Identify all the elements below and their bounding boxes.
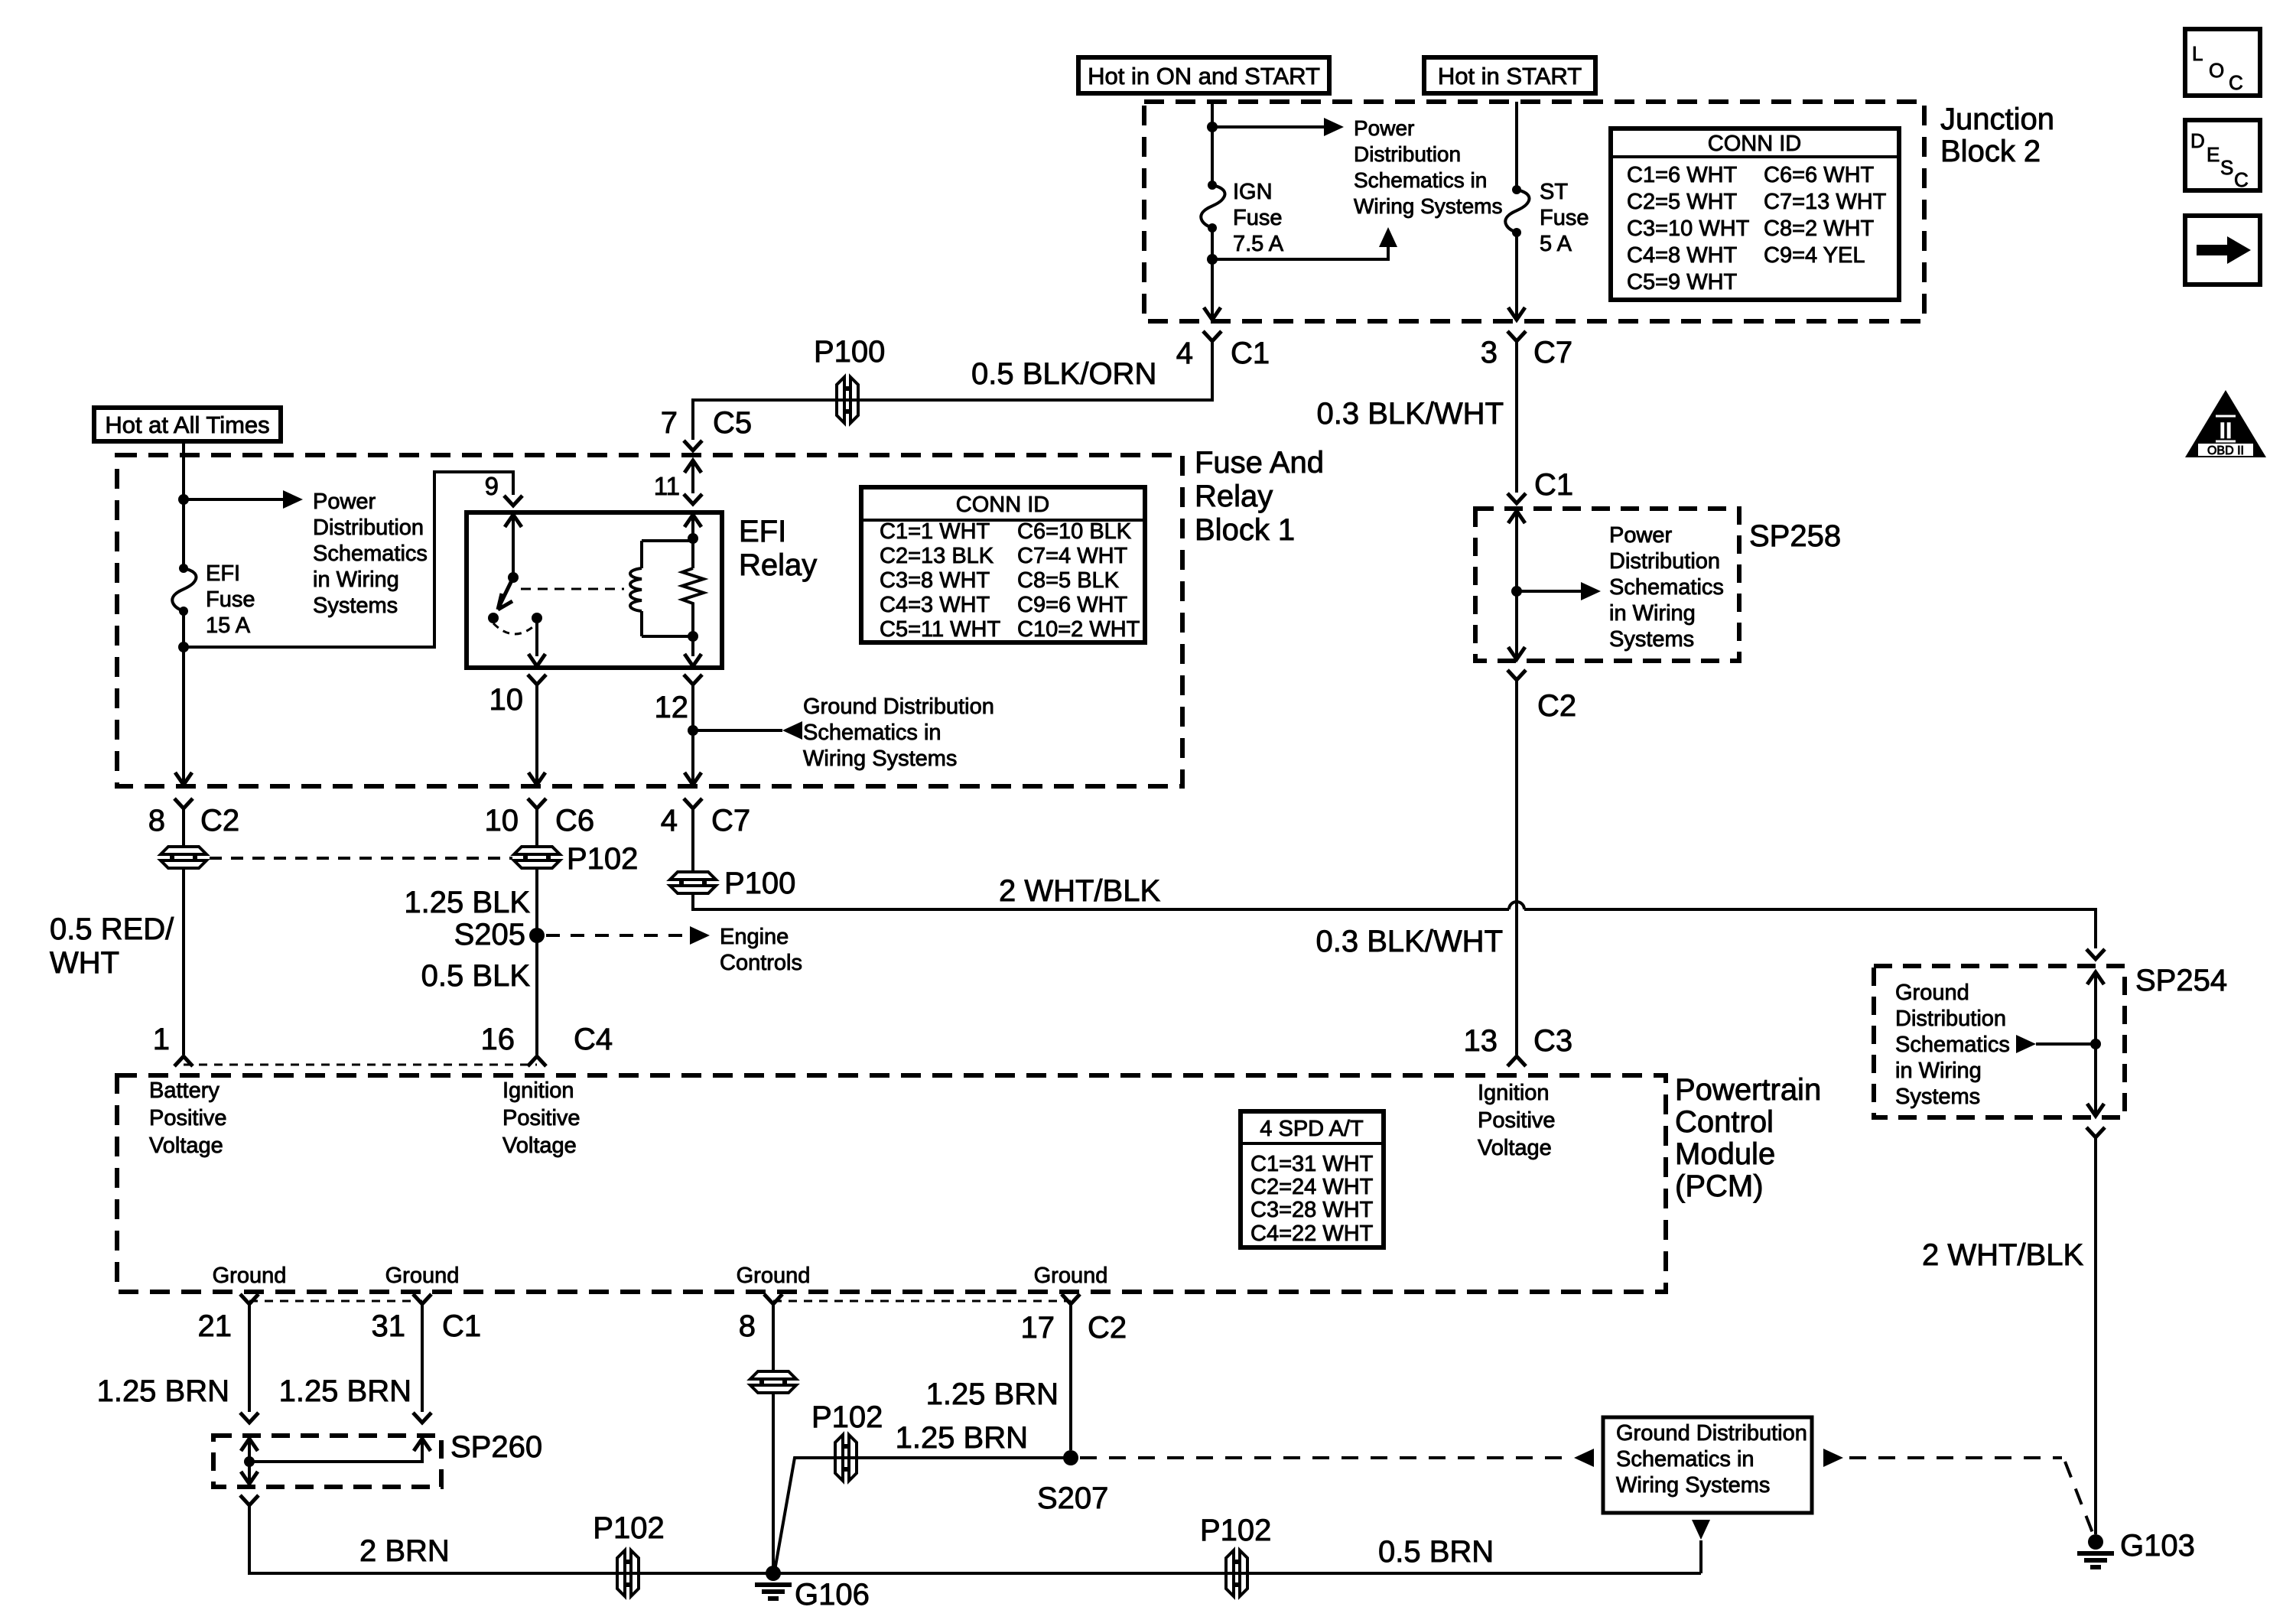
relay EFI: case <box>467 512 722 668</box>
text: Ground Distribution Schematics in Wiring Systems (SP254) <box>1895 981 2010 1109</box>
svg-text:Distribution: Distribution <box>313 516 424 540</box>
svg-text:Fuse: Fuse <box>1540 206 1589 230</box>
label EFI Fuse 15 A <box>206 561 255 638</box>
svg-text:1.25 BLK: 1.25 BLK <box>404 886 530 919</box>
svg-text:P102: P102 <box>567 842 638 876</box>
svg-text:Power: Power <box>313 490 376 514</box>
inline connector P102 (0.5 BRN) <box>1226 1550 1247 1596</box>
arrow (left) at ground distribution box <box>1574 1449 1594 1467</box>
icon: LOC box <box>2185 29 2260 96</box>
pin 13 C3 terminal into PCM <box>1507 1056 1526 1066</box>
svg-text:0.5 RED/: 0.5 RED/ <box>50 912 174 946</box>
svg-text:Hot in ON and START: Hot in ON and START <box>1088 63 1320 89</box>
svg-text:C7=4 WHT: C7=4 WHT <box>1017 544 1128 568</box>
pin 4 C1 female terminal <box>1203 331 1221 341</box>
pin 9 male terminal <box>504 496 522 506</box>
svg-text:2 BRN: 2 BRN <box>359 1534 450 1568</box>
arrow inside SP258 bottom <box>1508 647 1525 659</box>
inline connector P100 (on 0.5 BLK/ORN) <box>837 377 858 423</box>
svg-text:0.3 BLK/WHT: 0.3 BLK/WHT <box>1315 925 1503 958</box>
splice S205 <box>529 928 545 943</box>
splice pack SP254 dashed boundary <box>1874 966 2125 1117</box>
header box: Hot in START <box>1424 57 1595 93</box>
wire: 1.25 BRN pin 21 to SP260 <box>248 1304 251 1412</box>
svg-text:OBD II: OBD II <box>2207 444 2244 457</box>
inline connector P102 (1.25 BRN) <box>835 1435 857 1481</box>
svg-text:P100: P100 <box>814 335 885 369</box>
ground distribution schematics box <box>1603 1417 1812 1513</box>
svg-text:7: 7 <box>661 406 678 440</box>
relay coil <box>630 568 642 611</box>
hop over 0.3 BLK/WHT wire <box>1509 902 1524 909</box>
node: SP258 splice dot <box>1511 586 1522 597</box>
svg-text:in Wiring: in Wiring <box>1895 1059 1982 1083</box>
svg-text:C5: C5 <box>713 406 752 440</box>
svg-text:Powertrain: Powertrain <box>1675 1073 1821 1107</box>
svg-text:Voltage: Voltage <box>502 1134 577 1158</box>
arrow to power distribution reference <box>283 490 303 509</box>
svg-text:Relay: Relay <box>1195 480 1273 513</box>
node: branch dot below EFI fuse <box>178 642 189 652</box>
svg-text:Hot in START: Hot in START <box>1438 63 1582 89</box>
svg-text:C10=2 WHT: C10=2 WHT <box>1017 617 1140 642</box>
pin 10 C6 female terminal <box>528 798 546 808</box>
svg-text:Ground: Ground <box>1034 1264 1108 1288</box>
svg-text:31: 31 <box>372 1309 406 1343</box>
svg-text:in Wiring: in Wiring <box>313 568 399 592</box>
svg-text:S: S <box>2220 156 2233 179</box>
svg-text:Fuse And: Fuse And <box>1195 446 1324 480</box>
pin 8 female terminal <box>764 1294 782 1304</box>
header box: Hot in ON and START <box>1078 57 1329 93</box>
arrow inside SP260 bottom <box>241 1472 258 1484</box>
fuse EFI 15 A <box>172 564 196 616</box>
inline connector P100 (2 WHT/BLK) <box>670 872 716 893</box>
wire: 1.25 BLK / 0.5 BLK down to PCM pin 16 <box>535 808 538 1055</box>
svg-text:C: C <box>2234 168 2249 191</box>
wire: junction block 2 IGN feed <box>1211 102 1214 320</box>
svg-text:II: II <box>2220 418 2233 444</box>
svg-text:Block 2: Block 2 <box>1940 135 2041 168</box>
svg-text:IGN: IGN <box>1233 180 1273 204</box>
svg-text:15 A: 15 A <box>206 613 251 638</box>
svg-text:C7: C7 <box>711 804 750 838</box>
arrow inside SP254 bottom <box>2087 1104 2104 1116</box>
svg-text:Voltage: Voltage <box>1478 1136 1552 1160</box>
dashed reference from S205 to Engine Controls <box>546 934 685 937</box>
svg-text:Junction: Junction <box>1940 102 2054 136</box>
svg-text:10: 10 <box>489 683 524 717</box>
wire: 2 WHT/BLK across to SP254 with hop over ST wire <box>693 893 2096 948</box>
svg-text:Ground: Ground <box>213 1264 287 1288</box>
pin 10 female terminal <box>528 675 546 685</box>
svg-text:C2=24 WHT: C2=24 WHT <box>1250 1175 1374 1199</box>
dashed mechanical link to coil <box>521 588 624 590</box>
wire: coil branch column <box>691 515 694 636</box>
wire: junction block 2 ST feed <box>1515 102 1518 320</box>
wire: 0.3 BLK/WHT down to SP258 <box>1515 341 1518 493</box>
SP260 male terminal right <box>413 1413 431 1423</box>
label Powertrain Control Module (PCM) <box>1675 1073 1821 1203</box>
svg-text:16: 16 <box>481 1023 515 1056</box>
svg-text:C9=4 YEL: C9=4 YEL <box>1764 243 1865 268</box>
svg-text:C5=11 WHT: C5=11 WHT <box>880 617 1000 642</box>
arrow (right) at ground distribution box <box>1823 1449 1843 1467</box>
svg-text:C5=9 WHT: C5=9 WHT <box>1627 270 1738 294</box>
svg-text:C4=3 WHT: C4=3 WHT <box>880 593 990 617</box>
wire: pin 4 C7 to P100 <box>691 808 694 873</box>
svg-text:C1=6 WHT: C1=6 WHT <box>1627 163 1738 187</box>
switch arm with arrowhead <box>498 577 513 610</box>
node: SP254 splice dot <box>2090 1039 2101 1049</box>
junction block 2 dashed boundary <box>1144 102 1924 321</box>
SP258 male terminal <box>1507 493 1526 503</box>
svg-text:Controls: Controls <box>720 951 802 975</box>
svg-text:0.3 BLK/WHT: 0.3 BLK/WHT <box>1316 397 1504 431</box>
pin 1 terminal into PCM <box>174 1056 193 1066</box>
svg-text:Ignition: Ignition <box>502 1078 574 1103</box>
pin 16 C4 terminal into PCM <box>528 1056 546 1066</box>
splice S207 <box>1063 1450 1078 1465</box>
pin 31 female terminal <box>413 1294 431 1304</box>
svg-text:C6=10 BLK: C6=10 BLK <box>1017 519 1132 544</box>
svg-text:CONN ID: CONN ID <box>1708 132 1801 156</box>
wire: 0.5 RED/WHT down to PCM pin 1 <box>182 808 185 1055</box>
svg-text:C7: C7 <box>1533 336 1572 369</box>
dashed diagonal to G103 <box>2065 1462 2093 1533</box>
svg-text:P100: P100 <box>724 867 795 900</box>
svg-text:4 SPD A/T: 4 SPD A/T <box>1260 1117 1364 1141</box>
wire: branch to power distribution reference (JB2) <box>1212 125 1325 128</box>
svg-text:8: 8 <box>148 804 165 838</box>
svg-text:E: E <box>2207 143 2220 166</box>
wire: coil to relay pin 12 <box>691 636 694 656</box>
svg-text:1: 1 <box>153 1023 170 1056</box>
pin 8 C2 female terminal <box>174 798 193 808</box>
label EFI Relay <box>739 515 817 582</box>
svg-text:2 WHT/BLK: 2 WHT/BLK <box>999 874 1160 908</box>
svg-text:Block 1: Block 1 <box>1195 513 1295 547</box>
icon: DESC box <box>2185 120 2260 191</box>
svg-text:CONN ID: CONN ID <box>956 493 1049 517</box>
svg-text:P102: P102 <box>593 1511 664 1545</box>
SP260 male terminal left <box>240 1413 259 1423</box>
fuse IGN 7.5 A <box>1201 181 1224 233</box>
svg-text:Schematics: Schematics <box>1609 575 1724 600</box>
svg-text:1.25 BRN: 1.25 BRN <box>279 1374 411 1408</box>
svg-text:EFI: EFI <box>739 515 786 548</box>
svg-text:Wiring Systems: Wiring Systems <box>1616 1473 1770 1498</box>
svg-text:C4: C4 <box>574 1023 613 1056</box>
wire: contact to relay pin 10 <box>535 618 538 656</box>
svg-text:Positive: Positive <box>1478 1108 1556 1133</box>
svg-text:Ignition: Ignition <box>1478 1081 1550 1105</box>
inline connector (pin 8 lead) <box>750 1371 796 1393</box>
svg-text:11: 11 <box>654 472 680 500</box>
relay suppression resistor <box>682 568 704 608</box>
svg-text:C3: C3 <box>1533 1024 1572 1058</box>
text: Power Distribution Schematics in Wiring Systems (JB2) <box>1354 116 1502 218</box>
svg-text:Distribution: Distribution <box>1354 142 1461 166</box>
dashed connector strip pins 8-17 <box>773 1300 1071 1303</box>
svg-text:Schematics: Schematics <box>313 542 428 566</box>
svg-text:Module: Module <box>1675 1137 1775 1171</box>
coil stubs <box>642 541 693 636</box>
dashed throw arc between contacts <box>493 623 537 634</box>
svg-text:7.5 A: 7.5 A <box>1233 232 1284 256</box>
fuse and relay block 1 dashed boundary <box>117 455 1182 786</box>
svg-text:C9=6 WHT: C9=6 WHT <box>1017 593 1128 617</box>
wire: 2 BRN from SP260 to G106 and on to ground distribution box <box>249 1505 1701 1573</box>
switch contact right <box>532 613 542 623</box>
svg-text:G106: G106 <box>795 1578 870 1610</box>
svg-text:O: O <box>2209 59 2224 82</box>
fuse ST 5 A <box>1505 185 1529 237</box>
wire: SP258 branch to reference text <box>1517 590 1581 593</box>
svg-text:SP254: SP254 <box>2135 964 2227 997</box>
wire: SP260 internal bus <box>249 1439 422 1462</box>
svg-text:1.25 BRN: 1.25 BRN <box>97 1374 229 1408</box>
svg-text:Fuse: Fuse <box>1233 206 1282 230</box>
icon: arrow box <box>2185 216 2260 285</box>
svg-text:Hot at All Times: Hot at All Times <box>105 411 269 438</box>
svg-text:C: C <box>2229 71 2243 94</box>
text: Ground labels above PCM bottom edge <box>213 1264 1108 1288</box>
svg-text:P102: P102 <box>811 1400 883 1434</box>
wire: through SP258 <box>1515 511 1518 659</box>
arrow into fuse block bottom at pin 8 wire <box>175 772 192 785</box>
svg-text:P102: P102 <box>1200 1514 1271 1547</box>
svg-text:(PCM): (PCM) <box>1675 1169 1764 1203</box>
svg-text:Ground Distribution: Ground Distribution <box>1616 1421 1807 1446</box>
icon: OBD II triangle <box>2185 390 2266 457</box>
wire: 0.3 BLK/WHT from SP258 to PCM pin 13 <box>1515 680 1518 1055</box>
label 0.5 RED/ WHT <box>50 912 174 980</box>
svg-text:WHT: WHT <box>50 946 119 980</box>
wire: 2 WHT/BLK down to G103 <box>2094 1137 2097 1534</box>
svg-text:SP260: SP260 <box>450 1430 542 1464</box>
text: Ignition Positive Voltage (PCM pin 16) <box>502 1078 581 1158</box>
svg-text:C2: C2 <box>1088 1311 1127 1345</box>
svg-text:5 A: 5 A <box>1540 232 1572 256</box>
text: Battery Positive Voltage (PCM pin 1) <box>149 1078 227 1158</box>
wire: 1.25 BRN pin 31 to SP260 <box>421 1304 424 1412</box>
svg-text:C1: C1 <box>442 1309 481 1343</box>
arrow into JB2 bottom at pin 4 <box>1204 307 1221 320</box>
wire: relay pin 10 down to fuse block edge <box>535 685 538 785</box>
svg-text:Systems: Systems <box>1609 627 1694 652</box>
wire: relay switch arm feed <box>512 515 515 577</box>
svg-text:Systems: Systems <box>313 594 398 618</box>
svg-text:C3=28 WHT: C3=28 WHT <box>1250 1198 1374 1222</box>
svg-text:S207: S207 <box>1037 1482 1108 1515</box>
wire: pin 7 to relay pin 11 <box>691 460 694 493</box>
svg-text:Control: Control <box>1675 1105 1774 1139</box>
text: Power Distribution Schematics in Wiring Systems (left) <box>313 490 428 618</box>
SP254 male terminal <box>2086 949 2105 959</box>
svg-text:SP258: SP258 <box>1749 519 1841 553</box>
text: Ground Distribution Schematics in Wiring Systems (fuse block) <box>803 694 994 771</box>
svg-text:C7=13 WHT: C7=13 WHT <box>1764 190 1887 214</box>
wire: 1.25 BRN from S207 to G106 <box>775 1458 1071 1570</box>
svg-text:Positive: Positive <box>149 1106 227 1130</box>
pin 3 C7 female terminal <box>1507 331 1526 341</box>
svg-text:G103: G103 <box>2120 1529 2195 1563</box>
svg-text:C1: C1 <box>1231 337 1270 370</box>
svg-text:Schematics in: Schematics in <box>803 720 941 745</box>
wire: EFI battery feed (Hot at All Times down to pin 8) <box>182 441 185 785</box>
pin 7 C5 male terminal <box>684 441 702 450</box>
wire: pin 17 1.25 BRN down to S207 <box>1069 1304 1072 1450</box>
svg-text:D: D <box>2190 129 2205 152</box>
label Junction Block 2 <box>1940 102 2054 168</box>
SP254 bottom female terminal <box>2086 1127 2105 1137</box>
wire: 0.5 BLK/ORN from pin 4 C1 to fuse block pin 7 C5 <box>693 341 1212 440</box>
dashed connector strip pins 1-16 <box>184 1064 537 1066</box>
pin 12 female terminal <box>684 675 702 685</box>
svg-text:Ground Distribution: Ground Distribution <box>803 694 994 719</box>
node: ground reference branch on pin 12 wire <box>688 725 698 736</box>
svg-text:S205: S205 <box>454 918 525 951</box>
label Fuse And Relay Block 1 <box>1195 446 1324 547</box>
wire: branch to ground distribution reference <box>693 729 782 732</box>
arrow inside SP260 right <box>414 1439 431 1451</box>
inline connector (pair P102 left) <box>161 847 207 868</box>
svg-text:Schematics in: Schematics in <box>1354 168 1487 192</box>
inline connector P102 (pair right) <box>514 847 560 868</box>
wire: pin 8 ground lead down to G106 <box>772 1304 775 1573</box>
svg-text:Ground: Ground <box>1895 981 1969 1005</box>
svg-text:in Wiring: in Wiring <box>1609 601 1696 626</box>
dashed reference from S207 to ground distribution box <box>1080 1456 1571 1459</box>
wire: branch to power distribution reference <box>184 498 285 501</box>
text: Engine Controls <box>720 925 802 975</box>
svg-text:Positive: Positive <box>502 1106 581 1130</box>
svg-text:12: 12 <box>655 691 689 724</box>
svg-text:C1=1 WHT: C1=1 WHT <box>880 519 990 544</box>
svg-text:C3=10 WHT: C3=10 WHT <box>1627 216 1750 241</box>
svg-text:Schematics in: Schematics in <box>1616 1447 1755 1472</box>
pin 11 male terminal <box>684 494 702 504</box>
arrow inside SP260 left <box>241 1439 258 1451</box>
pin 21 female terminal <box>240 1294 259 1304</box>
label ST Fuse 5 A <box>1540 180 1589 256</box>
arrow inside SP254 top <box>2087 972 2104 984</box>
svg-text:17: 17 <box>1021 1311 1055 1345</box>
wire: through SP254 <box>2094 972 2097 1116</box>
svg-text:C3=8 WHT: C3=8 WHT <box>880 568 990 593</box>
SP260 bottom female terminal <box>240 1495 259 1505</box>
node: coil bottom junction <box>688 631 698 642</box>
svg-text:Ground: Ground <box>737 1264 811 1288</box>
svg-text:0.5 BLK: 0.5 BLK <box>421 959 531 993</box>
svg-text:C2: C2 <box>200 804 239 838</box>
svg-text:C8=5 BLK: C8=5 BLK <box>1017 568 1120 593</box>
svg-text:C8=2 WHT: C8=2 WHT <box>1764 216 1875 241</box>
svg-text:Ground: Ground <box>385 1264 460 1288</box>
text: Power Distribution Schematics in Wiring Systems (SP258) <box>1609 523 1724 652</box>
svg-text:C6: C6 <box>555 804 594 838</box>
splice pack SP258 dashed boundary <box>1475 509 1739 661</box>
svg-text:L: L <box>2192 42 2203 65</box>
conn id table (fuse and relay block 1) <box>861 487 1145 642</box>
arrow inside SP258 top <box>1508 511 1525 523</box>
svg-text:EFI: EFI <box>206 561 240 586</box>
pin 4 C7 female terminal <box>684 798 702 808</box>
svg-text:0.5 BRN: 0.5 BRN <box>1378 1535 1494 1569</box>
ground G106 <box>755 1566 792 1599</box>
svg-text:Wiring Systems: Wiring Systems <box>1354 194 1502 218</box>
svg-text:Voltage: Voltage <box>149 1134 223 1158</box>
node: branch dot above EFI fuse <box>178 494 189 505</box>
svg-text:Power: Power <box>1609 523 1673 548</box>
svg-text:Power: Power <box>1354 116 1414 140</box>
arrow to relay bottom edge pin 10 <box>528 654 545 666</box>
svg-text:4: 4 <box>1176 337 1193 370</box>
svg-text:9: 9 <box>485 472 499 500</box>
inline connector P102 (2 BRN) <box>617 1550 639 1596</box>
splice pack SP260 dashed boundary <box>213 1436 441 1487</box>
svg-text:0.5 BLK/ORN: 0.5 BLK/ORN <box>971 357 1156 391</box>
pin 17 female terminal <box>1062 1294 1080 1304</box>
svg-text:Distribution: Distribution <box>1609 549 1720 574</box>
dashed reference from box to G103 <box>1849 1456 2062 1459</box>
svg-text:Battery: Battery <box>149 1078 220 1103</box>
svg-text:C2: C2 <box>1537 689 1576 723</box>
node: IGN branch bottom <box>1207 254 1218 265</box>
svg-text:8: 8 <box>739 1309 756 1343</box>
arrow (left pointing) ground distribution reference <box>782 721 802 740</box>
svg-text:C6=6 WHT: C6=6 WHT <box>1764 163 1875 187</box>
wire: jog from EFI fuse to relay pin 9 <box>184 472 513 647</box>
arrow below fuse block top edge at pin 7 <box>685 460 701 473</box>
wire: relay pin 12 down to fuse block edge <box>691 685 694 785</box>
label IGN Fuse 7.5 A <box>1233 180 1284 256</box>
svg-text:C1: C1 <box>1534 468 1573 502</box>
svg-text:10: 10 <box>485 804 519 838</box>
svg-text:Wiring Systems: Wiring Systems <box>803 746 957 771</box>
conn id table (junction block 2) <box>1611 128 1899 300</box>
node: switch pivot <box>508 572 519 583</box>
svg-text:C2=5 WHT: C2=5 WHT <box>1627 190 1738 214</box>
svg-text:Distribution: Distribution <box>1895 1007 2006 1031</box>
PCM dashed boundary <box>117 1075 1666 1292</box>
svg-text:Systems: Systems <box>1895 1085 1980 1109</box>
svg-text:Fuse: Fuse <box>206 587 255 612</box>
ground G103 <box>2077 1534 2114 1567</box>
switch contact left <box>488 613 499 623</box>
svg-text:C4=8 WHT: C4=8 WHT <box>1627 243 1738 268</box>
svg-text:Relay: Relay <box>739 548 817 582</box>
wire: riser to ground distribution box <box>1699 1540 1702 1573</box>
svg-text:Engine: Engine <box>720 925 789 949</box>
pin 11 entry arrow inside relay <box>685 515 701 527</box>
node: IGN branch top <box>1207 122 1218 132</box>
svg-text:13: 13 <box>1464 1024 1498 1058</box>
svg-text:4: 4 <box>661 804 678 838</box>
pin 9 entry arrow inside relay <box>505 515 522 527</box>
node: SP260 splice dot <box>244 1456 255 1467</box>
SP258 bottom female terminal <box>1507 670 1526 680</box>
wire: SP260 down leg <box>248 1462 251 1484</box>
svg-text:C4=22 WHT: C4=22 WHT <box>1250 1221 1374 1246</box>
svg-text:21: 21 <box>198 1309 233 1343</box>
svg-text:ST: ST <box>1540 180 1568 204</box>
wire: branch with up arrow reference <box>1212 232 1388 259</box>
svg-text:3: 3 <box>1481 336 1498 369</box>
dashed connector link between P102 halves <box>210 857 512 860</box>
dashed connector strip pins 21-31 <box>249 1300 422 1303</box>
